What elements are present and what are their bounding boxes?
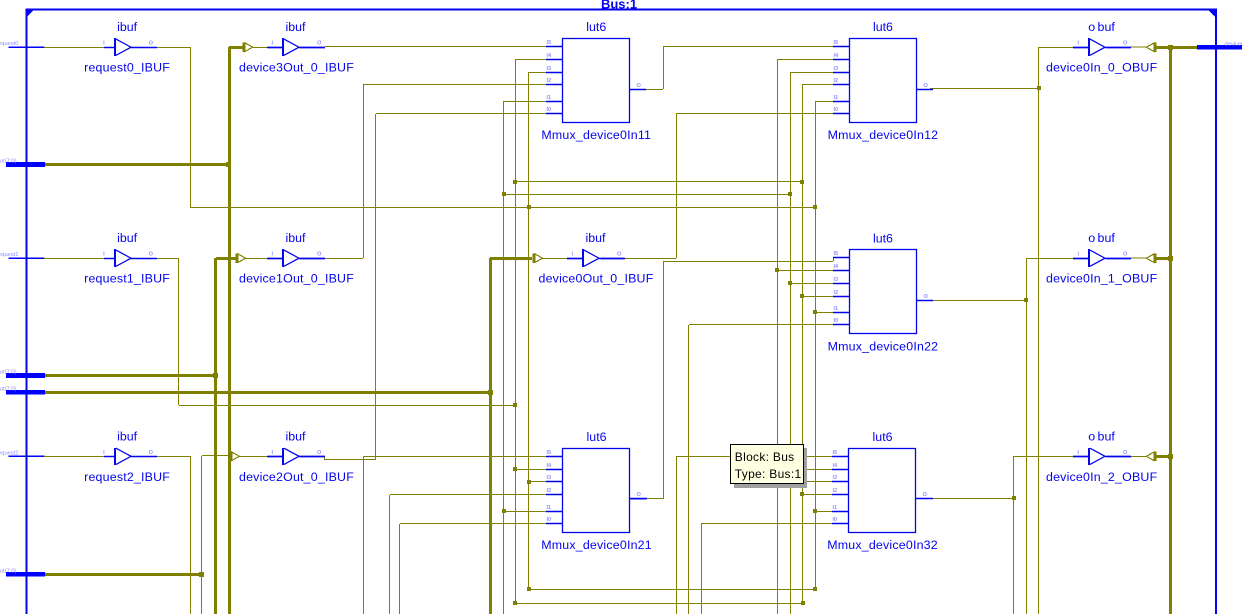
svg-text:ibuf: ibuf	[117, 20, 138, 34]
svg-text:request0: request0	[0, 41, 19, 47]
svg-text:ibuf: ibuf	[117, 231, 138, 245]
wire net device1Out_0_IBUF to Mmux_device0In11 I2	[300, 85, 546, 259]
svg-text:ibuf: ibuf	[586, 231, 607, 245]
bus wire device3Out(7:0)	[45, 47, 243, 614]
svg-text:Type: Bus:1: Type: Bus:1	[735, 467, 802, 481]
bus tap arrow row1 device3Out	[243, 42, 253, 52]
svg-text:device0In: device0In	[1225, 41, 1242, 47]
svg-text:o buf: o buf	[1088, 231, 1115, 245]
svg-text:O: O	[923, 492, 928, 498]
svg-text:I5: I5	[834, 251, 839, 257]
svg-text:O: O	[1123, 450, 1128, 456]
wire net request1 / select row	[44, 258, 517, 407]
svg-text:Mmux_device0In22: Mmux_device0In22	[828, 339, 939, 353]
svg-text:I: I	[103, 252, 105, 258]
svg-text:o buf: o buf	[1088, 20, 1115, 34]
svg-text:I4: I4	[834, 264, 840, 270]
svg-text:lut6: lut6	[587, 430, 607, 444]
svg-text:device0In_0_OBUF: device0In_0_OBUF	[1046, 61, 1158, 75]
bus tap arrow row2 device1Out	[236, 253, 246, 263]
svg-text:I5: I5	[833, 450, 838, 456]
svg-text:I: I	[1078, 252, 1080, 258]
mux lut lut6 Mmux_device0In21	[541, 430, 652, 552]
obuf output blue wire row3	[1107, 456, 1131, 458]
buffer U12 ibuf device2Out_0_IBUF	[239, 429, 354, 484]
svg-text:device3Out(7:0): device3Out(7:0)	[0, 159, 17, 165]
wire net select B (LUT I4/I2 chain)	[513, 59, 805, 605]
svg-text:device3Out_0_IBUF: device3Out_0_IBUF	[239, 61, 354, 75]
buffer U11 ibuf request2_IBUF	[84, 429, 170, 484]
bus tap arrow device0Out	[533, 253, 543, 263]
bus tap arrow row3 device2Out	[229, 451, 239, 461]
input port request0	[0, 41, 45, 47]
buffer U10 obuf device0In_1_OBUF	[1046, 231, 1158, 286]
svg-text:device0Out(7:0): device0Out(7:0)	[0, 386, 17, 392]
svg-text:I1: I1	[547, 505, 552, 511]
wire arrow to device3Out ibuf	[252, 47, 268, 49]
svg-text:I0: I0	[834, 318, 839, 324]
svg-text:ibuf: ibuf	[286, 429, 307, 443]
svg-text:I4: I4	[547, 463, 553, 469]
wire net Mmux_device0In11 O to Mmux_device0In12 I5	[646, 47, 833, 90]
bus tap arrow row2 device0In	[1146, 253, 1156, 263]
buffer U5 obuf device0In_0_OBUF	[1046, 20, 1158, 74]
wire net Mmux_device0In32 O to device0In_2_OBUF	[933, 456, 1089, 614]
svg-text:Mmux_device0In21: Mmux_device0In21	[541, 538, 652, 552]
wire net riser to Mmux_device0In32 I5	[676, 456, 833, 614]
mux lut lut6 Mmux_device0In22	[828, 231, 939, 353]
svg-text:O: O	[617, 252, 622, 258]
buffer U2 ibuf device3Out_0_IBUF	[239, 20, 354, 74]
bus wire device2Out(7:0)	[45, 456, 229, 614]
svg-text:lut6: lut6	[873, 430, 893, 444]
wire net riser to Mmux_device0In32 I0	[701, 524, 833, 614]
svg-text:O: O	[1123, 41, 1128, 47]
svg-text:O: O	[149, 252, 154, 258]
wire obuf to arrow row2	[1131, 257, 1148, 259]
buffer U1 ibuf request0_IBUF	[84, 20, 170, 74]
svg-text:O: O	[149, 450, 154, 456]
wire obuf to arrow row3	[1131, 455, 1148, 457]
svg-text:I: I	[103, 450, 105, 456]
input port request1	[0, 252, 45, 258]
svg-text:O: O	[637, 83, 642, 89]
wire net riser to LUT I3 column	[788, 72, 833, 614]
wire net device2Out_0_IBUF to Mmux_device0In11 I0	[300, 114, 546, 461]
svg-text:I: I	[272, 41, 274, 47]
wire net riser to LUT I1 column	[813, 101, 833, 590]
bus wire device0In(2:0) collector	[1156, 45, 1197, 614]
bus port device3Out(7:0)	[0, 159, 45, 167]
svg-text:I: I	[1078, 41, 1080, 47]
wire net riser to LUT I2 column	[800, 85, 833, 605]
bus port device1Out(7:0)	[0, 370, 45, 378]
svg-text:I: I	[1078, 450, 1080, 456]
wire net request0 / select row	[44, 47, 817, 209]
svg-text:ibuf: ibuf	[117, 429, 138, 443]
bus port device0Out(7:0)	[0, 386, 45, 394]
svg-text:Block: Bus: Block: Bus	[735, 450, 795, 464]
svg-text:O: O	[1123, 252, 1128, 258]
wire net select A (LUT I1/I3 chain)	[502, 101, 792, 614]
svg-text:O: O	[317, 252, 322, 258]
svg-text:device1Out(7:0): device1Out(7:0)	[0, 370, 17, 376]
tooltip Block: Bus / Type: Bus:1	[731, 445, 808, 489]
svg-text:device0In_2_OBUF: device0In_2_OBUF	[1046, 470, 1158, 484]
svg-text:Mmux_device0In12: Mmux_device0In12	[828, 128, 939, 142]
svg-text:device0Out_0_IBUF: device0Out_0_IBUF	[539, 272, 654, 286]
wire net feeders to Mmux_device0In21 I5 I2 I0	[363, 456, 546, 614]
svg-text:lut6: lut6	[873, 20, 893, 34]
svg-text:I2: I2	[547, 78, 552, 84]
wire net select C (LUT I3/I1 chain)	[527, 72, 817, 591]
wire net device3Out_0_IBUF to Mmux_device0In11 I5	[300, 47, 546, 48]
svg-text:device1Out_0_IBUF: device1Out_0_IBUF	[239, 272, 354, 286]
bus wire device1Out(7:0)	[45, 258, 236, 614]
wire net device0Out_0_IBUF to Mmux_device0In12 I0	[601, 114, 833, 259]
svg-text:o buf: o buf	[1088, 429, 1115, 443]
svg-text:I2: I2	[547, 488, 552, 494]
buffer U7 ibuf device1Out_0_IBUF	[239, 231, 354, 286]
mux lut lut6 Mmux_device0In12	[828, 20, 939, 142]
svg-text:I5: I5	[834, 40, 839, 46]
wire net Mmux_device0In21 O to Mmux_device0In22 I5	[630, 258, 833, 499]
svg-text:I: I	[272, 450, 274, 456]
svg-text:request2_IBUF: request2_IBUF	[84, 470, 170, 484]
input port request2	[0, 450, 45, 456]
svg-text:I3: I3	[834, 66, 839, 72]
svg-text:device0In_1_OBUF: device0In_1_OBUF	[1046, 272, 1158, 286]
svg-text:I5: I5	[547, 450, 552, 456]
svg-text:I4: I4	[547, 53, 553, 59]
wire arrow to device1Out ibuf	[245, 258, 268, 260]
svg-text:request1: request1	[0, 252, 19, 258]
svg-text:I: I	[272, 252, 274, 258]
bus wire device0Out(7:0)	[45, 258, 532, 614]
svg-text:I: I	[103, 41, 105, 47]
svg-text:I0: I0	[833, 517, 838, 523]
svg-text:lut6: lut6	[586, 20, 606, 34]
svg-text:I2: I2	[833, 488, 838, 494]
svg-text:I2: I2	[834, 290, 839, 296]
svg-text:O: O	[637, 492, 642, 498]
svg-text:I1: I1	[833, 505, 838, 511]
svg-text:request1_IBUF: request1_IBUF	[84, 272, 170, 286]
wire arrow to device2Out ibuf	[239, 456, 268, 458]
mux lut lut6 Mmux_device0In11	[541, 20, 651, 142]
svg-text:I0: I0	[834, 107, 839, 113]
svg-text:I4: I4	[833, 463, 839, 469]
svg-text:request0_IBUF: request0_IBUF	[84, 61, 170, 75]
wire net riser to LUT I4 column	[775, 59, 833, 614]
svg-text:I3: I3	[833, 475, 838, 481]
wire net riser to Mmux_device0In22 I0	[689, 325, 834, 614]
wire net request2	[44, 456, 191, 614]
svg-text:device2Out(7:0): device2Out(7:0)	[0, 568, 17, 574]
svg-text:I4: I4	[834, 53, 840, 59]
svg-text:Mmux_device0In32: Mmux_device0In32	[827, 538, 938, 552]
svg-text:lut6: lut6	[873, 231, 893, 245]
wire obuf to arrow row1	[1131, 46, 1148, 48]
obuf output blue wire row2	[1107, 258, 1131, 260]
svg-text:ibuf: ibuf	[286, 231, 307, 245]
output port device0In bus stub	[1197, 41, 1242, 49]
svg-text:I0: I0	[547, 517, 552, 523]
svg-text:I: I	[572, 252, 574, 258]
obuf output blue wire row1	[1107, 47, 1131, 49]
svg-text:device2Out_0_IBUF: device2Out_0_IBUF	[239, 470, 354, 484]
svg-text:request2: request2	[0, 450, 19, 456]
wire arrow to device0Out ibuf	[542, 258, 567, 260]
svg-text:I3: I3	[834, 277, 839, 283]
svg-text:ibuf: ibuf	[286, 20, 307, 34]
svg-text:I1: I1	[547, 95, 552, 101]
svg-text:O: O	[317, 450, 322, 456]
bus port device2Out(7:0)	[0, 568, 45, 576]
svg-text:I3: I3	[547, 475, 552, 481]
wire net Mmux_device0In12 O to device0In_0_OBUF	[930, 47, 1089, 614]
svg-text:I3: I3	[547, 66, 552, 72]
buffer U8 ibuf device0Out_0_IBUF	[539, 231, 654, 286]
svg-text:Mmux_device0In11: Mmux_device0In11	[541, 128, 651, 142]
buffer U6 ibuf request1_IBUF	[84, 231, 170, 286]
svg-text:Bus:1: Bus:1	[601, 0, 637, 12]
svg-text:O: O	[924, 294, 929, 300]
wire net Mmux_device0In22 O to device0In_1_OBUF	[933, 258, 1089, 614]
mux lut lut6 Mmux_device0In32	[827, 430, 938, 552]
bus tap arrow row1 device0In	[1146, 42, 1156, 52]
svg-text:O: O	[317, 41, 322, 47]
svg-text:I2: I2	[834, 78, 839, 84]
svg-text:I1: I1	[834, 95, 839, 101]
svg-text:I5: I5	[547, 40, 552, 46]
svg-text:I1: I1	[834, 306, 839, 312]
svg-text:I0: I0	[547, 107, 552, 113]
bus tap arrow row3 device0In	[1146, 451, 1156, 461]
buffer U15 obuf device0In_2_OBUF	[1046, 429, 1158, 484]
svg-text:O: O	[149, 41, 154, 47]
svg-text:O: O	[924, 83, 929, 89]
